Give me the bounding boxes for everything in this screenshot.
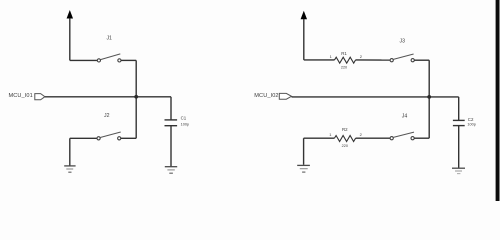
wire: J1 to left bus (121, 59, 136, 61)
capacitor C1 (165, 120, 178, 126)
wire: right bus vertical (428, 60, 430, 138)
junction: bus / MCU_I02 net (427, 95, 431, 99)
wire: VCC to R1 (304, 59, 335, 61)
svg-text:MCU_I01: MCU_I01 (9, 93, 33, 99)
wire: J4 branch horizontal (304, 137, 335, 139)
svg-text:100p: 100p (467, 123, 475, 127)
svg-text:1: 1 (329, 132, 332, 137)
ground left branch (64, 166, 75, 172)
ground under C1 (165, 167, 177, 174)
resistor R1 (335, 57, 356, 63)
switch J3 (390, 54, 414, 62)
wire: net corner down to C1 (170, 97, 172, 120)
wire: J2 to left bus (121, 137, 136, 139)
svg-text:J2: J2 (104, 113, 110, 119)
wire: left bus vertical (135, 60, 137, 138)
power symbol VCC (right) (301, 12, 307, 60)
junction: bus / MCU_I01 net (134, 95, 138, 99)
wire: J4 to right bus (414, 137, 429, 139)
svg-text:R1: R1 (341, 51, 347, 56)
svg-text:MCU_I02: MCU_I02 (254, 93, 278, 99)
wire: R1 to J3 (356, 59, 391, 61)
resistor R2 (334, 136, 355, 142)
net flag MCU_I01 (35, 94, 45, 100)
wire: J2 branch horizontal (70, 137, 97, 139)
capacitor C2 (453, 120, 465, 125)
svg-text:R2: R2 (342, 127, 348, 132)
svg-text:220: 220 (341, 66, 347, 70)
wire: main net MCU_I02 (292, 96, 459, 98)
switch J1 (97, 54, 121, 62)
svg-text:C1: C1 (181, 116, 187, 121)
net flag MCU_I02 (279, 93, 291, 99)
wire: J4 branch to ground (303, 138, 305, 165)
wire: J3 to right bus (414, 59, 429, 61)
svg-text:2: 2 (360, 54, 363, 59)
wire: R2 to J4 (356, 137, 391, 139)
wire: net corner down to C2 (458, 97, 460, 120)
power symbol VCC (left) (67, 11, 73, 61)
svg-text:2: 2 (360, 132, 363, 137)
switch J2 (97, 132, 121, 140)
wire: C1 to ground (170, 126, 172, 167)
wire: main net MCU_I01 (45, 96, 171, 98)
wire: C2 to ground (458, 126, 460, 168)
svg-text:100p: 100p (181, 122, 189, 126)
svg-text:1: 1 (330, 54, 333, 59)
svg-text:220: 220 (342, 144, 348, 148)
svg-text:J4: J4 (402, 114, 408, 120)
wire: J2 branch to ground (69, 138, 71, 165)
ground right branch (297, 165, 310, 172)
wire: VCC to J1 left contact (70, 59, 98, 61)
svg-text:J3: J3 (400, 39, 406, 45)
svg-text:C2: C2 (468, 117, 474, 122)
switch J4 (390, 132, 414, 140)
svg-text:J1: J1 (106, 35, 112, 41)
ground under C2 (452, 168, 465, 173)
